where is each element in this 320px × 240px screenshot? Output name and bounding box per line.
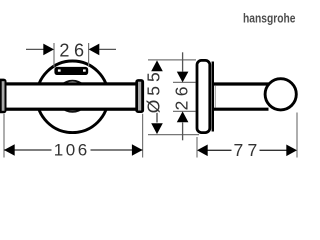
top dim 26: arrows (43, 44, 54, 56)
side view: joint line (214, 86, 216, 108)
dim Ø55: stub line (156, 113, 158, 123)
svg-text:hansgrohe: hansgrohe (243, 11, 296, 25)
side view: rosette plate (197, 60, 210, 132)
side view: arm fill (214, 86, 270, 108)
inner boss circle (57, 81, 88, 112)
bottom dim 106: dim line (4, 149, 52, 151)
dim 26 side: leader lines (182, 52, 184, 71)
svg-text:26: 26 (171, 82, 191, 110)
dim 77: extension lines (196, 137, 198, 158)
bottom dim 106: arrows (4, 144, 15, 156)
side view: ball (265, 79, 296, 110)
wall rosette circle (front view) (37, 61, 109, 133)
right end cap (135, 79, 144, 113)
dim 77: dim line (207, 149, 232, 151)
dim 26 side: arrows (177, 72, 189, 83)
dim Ø55: arrows (151, 60, 163, 71)
left end cap (0, 79, 7, 114)
top dim 26: leader lines (26, 48, 44, 50)
svg-text:106: 106 (54, 141, 90, 160)
bottom dim 106: extension lines (3, 114, 5, 158)
dim Ø55: extension lines (148, 59, 196, 61)
side view: arm top edge (214, 82, 269, 85)
side view: arm bottom edge (214, 108, 269, 111)
svg-text:77: 77 (234, 140, 262, 160)
dim 26 side: extension lines (173, 81, 196, 83)
top dim 26: extension lines (53, 43, 55, 67)
svg-text:26: 26 (59, 40, 88, 60)
svg-text:Ø55: Ø55 (144, 68, 164, 113)
label plate (54, 67, 88, 75)
bar (front view) (0, 84, 140, 109)
side view: plate front edge line (212, 62, 214, 132)
dim 77: arrows (197, 145, 208, 157)
